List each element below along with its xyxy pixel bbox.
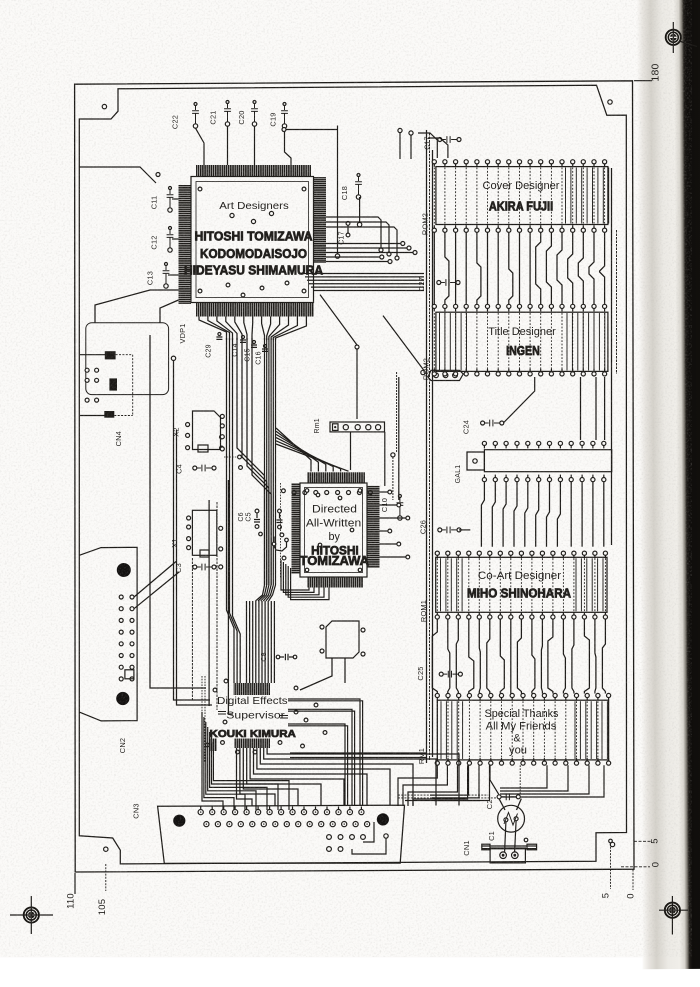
dimension 105 bottom left xyxy=(105,864,107,891)
wire C13 to U1 xyxy=(168,274,179,276)
connector CN3 xyxy=(158,805,405,863)
wire diagonal to RA1 xyxy=(383,316,424,371)
wire loop upper left xyxy=(86,323,169,395)
connector CN4 xyxy=(80,354,105,356)
wire long vertical left pair xyxy=(171,356,175,360)
dimension 0 bottom right xyxy=(632,870,634,891)
wire right rail verticals xyxy=(426,130,428,763)
wire stubs top right xyxy=(398,128,402,132)
U2 top pads row xyxy=(292,491,296,495)
ROM3 pads row C xyxy=(432,304,436,308)
U1 pin band bottom xyxy=(196,303,314,317)
wire dotted left of U2 xyxy=(280,483,282,578)
pads column left of bundle xyxy=(220,435,224,439)
drawing frame border xyxy=(75,81,634,872)
wire row D sparse verticals xyxy=(580,377,582,440)
wire C20 to U1 xyxy=(254,126,256,165)
ROM1 pads row bottom xyxy=(435,615,439,619)
wire staircase bundle U3 to CN3 xyxy=(237,748,253,806)
IC ROM3 chip body xyxy=(436,312,608,371)
wire runs RAM1 to CN3 area xyxy=(398,794,488,796)
wire vertical pair right of U2 xyxy=(396,372,398,453)
wire U2 bottom wrap xyxy=(281,560,309,590)
wire C22 to U1 xyxy=(196,128,205,165)
wire far right rail xyxy=(611,168,613,545)
IC ROM1 chip body xyxy=(436,557,607,612)
wire C21 to U1 xyxy=(227,126,229,165)
capacitor symbols near C6 C5 xyxy=(255,509,259,513)
U2 pin band top xyxy=(307,472,365,483)
ROM2 pads row B xyxy=(432,228,436,232)
registration mark bottom left xyxy=(24,907,39,922)
dimension 5 right edge xyxy=(634,840,652,842)
wire bundle U1 right side horizontal xyxy=(326,243,403,245)
IC U2 QFP body xyxy=(300,483,367,577)
dimension 5 bottom right xyxy=(610,844,612,890)
wire left verticals to bottom xyxy=(149,335,151,500)
wire bundle ROM2 to ROM3 xyxy=(433,232,435,304)
wire bundle U2 to U3 vertical xyxy=(246,601,248,683)
ROM3 pads row D xyxy=(432,372,436,376)
wire C19 to U1 xyxy=(285,128,292,165)
U2 pin band left xyxy=(292,483,301,574)
mounting pad top-right xyxy=(608,100,612,104)
IC RAM1 pads row top xyxy=(435,693,439,697)
crystal X2 xyxy=(193,411,221,450)
IC U3 pin band top xyxy=(234,683,271,695)
mounting pad bottom-right xyxy=(610,842,614,846)
U3 nearby pads xyxy=(294,710,298,714)
wire staircase RAM1 bottom left xyxy=(398,765,437,806)
wire RAM1 right bottom bends xyxy=(500,765,547,788)
U1 inner pads xyxy=(198,187,202,191)
connector CN2 xyxy=(79,547,137,721)
U3 pin stub left xyxy=(210,739,217,752)
wire bundle socket to ROM1 xyxy=(481,482,484,547)
RAM1 pads row bottom xyxy=(435,761,439,765)
wire bundle left pair to U3 xyxy=(227,338,235,683)
IC ROM2 pads row A xyxy=(432,160,436,164)
wire bundle U1 bottom-right dense pack xyxy=(303,273,424,275)
wire C12 to U1 xyxy=(172,238,179,240)
wire CN2 diagonals to X1 xyxy=(134,562,176,598)
U1 pin band left xyxy=(179,185,192,304)
socket L1 pads row bottom xyxy=(482,478,486,482)
dimension 110 bottom left xyxy=(74,873,76,894)
crystal X1 xyxy=(192,510,216,555)
dimension 0 right edge xyxy=(621,866,650,868)
board outline with corner notches xyxy=(79,85,626,864)
dimension 180 top right xyxy=(634,80,652,82)
socket L1 pads row top xyxy=(482,441,486,445)
pads left of U2 xyxy=(282,489,286,493)
wire C11 to U1 xyxy=(172,198,179,200)
socket L1 body xyxy=(484,450,611,472)
wire hook right of bundle xyxy=(274,537,287,552)
wire bundle mid merges xyxy=(237,338,265,585)
registration mark bottom right xyxy=(665,903,680,918)
wire ROM2 row A top bends xyxy=(418,133,437,158)
U3 side marks xyxy=(218,712,288,719)
resistor network RA1 xyxy=(421,370,425,374)
wire top loop right of U1 xyxy=(284,129,338,131)
wire runs U3 right bends xyxy=(288,699,360,806)
U3 pads under text xyxy=(206,743,210,747)
IC RAM1 chip body xyxy=(437,700,608,760)
wire bundle central column xyxy=(264,338,266,585)
wire U2 right stubs xyxy=(380,491,389,493)
wire diagonal to Rm1 xyxy=(320,295,357,345)
connector CN1 xyxy=(482,845,537,847)
IC ROM2 chip body xyxy=(436,167,608,225)
U2 pin band bottom xyxy=(307,577,363,588)
pad near bottom dimension xyxy=(609,839,613,843)
CN3 right pad cluster xyxy=(327,835,332,840)
wire C2 feeds xyxy=(519,765,521,794)
IC ROM1 pads row top xyxy=(435,551,439,555)
IC U1 QFP body xyxy=(191,177,314,303)
U1 pin band right xyxy=(314,177,327,263)
registration mark top right xyxy=(666,30,681,45)
wire U1 right bends upper xyxy=(326,217,381,248)
transistor Q1 xyxy=(498,805,525,832)
mounting pad bottom-left xyxy=(104,847,108,851)
resistor network Rm1 xyxy=(330,422,385,432)
wire staircase left brackets xyxy=(202,712,223,810)
wire fan into U2 top xyxy=(276,428,311,472)
wire C24 diagonal xyxy=(503,377,534,423)
wire X3 to U3 xyxy=(300,658,332,690)
U1 pin band top xyxy=(196,165,311,177)
wire bundle ROM1 to RAM1 xyxy=(432,619,437,694)
page edge shadow band xyxy=(636,0,700,969)
wire C18 stem xyxy=(359,197,361,222)
wire RAM1 mid pads down xyxy=(430,765,469,795)
U2 pin band right xyxy=(367,486,380,569)
wire bundle U1 funnel xyxy=(199,317,227,341)
IC U3 pin band bottom xyxy=(235,739,271,749)
U2 inner pads xyxy=(305,489,309,493)
wire dotted pair near U3 xyxy=(201,676,203,758)
mounting pad top-left xyxy=(102,104,106,108)
crystal X3 xyxy=(326,621,359,658)
wire left edge to C11 area xyxy=(79,167,156,183)
